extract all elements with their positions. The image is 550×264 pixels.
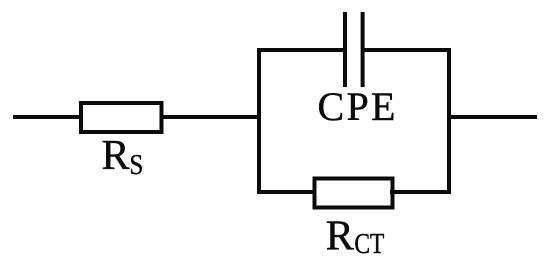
svg-text:CT: CT: [354, 229, 384, 260]
wire: right vertical branch: [447, 48, 451, 194]
capacitor CPE left plate: [343, 12, 347, 87]
wire: CPE to top-right horizontal: [363, 48, 451, 52]
svg-text:R: R: [326, 213, 354, 259]
resistor RS box: [81, 103, 162, 132]
svg-text:CPE: CPE: [318, 84, 398, 129]
wire: top-left horizontal to CPE: [257, 48, 345, 52]
wire: left vertical branch: [257, 48, 261, 194]
wire: RS to parallel junction: [162, 115, 262, 119]
wire: left lead: [13, 115, 83, 119]
svg-text:R: R: [102, 133, 130, 179]
wire: RCT to bottom-right horizontal: [390, 190, 451, 194]
capacitor CPE right plate: [361, 12, 365, 87]
wire: right lead: [449, 115, 537, 119]
resistor RCT box: [315, 179, 393, 208]
svg-text:S: S: [129, 149, 143, 181]
wire: bottom-left horizontal to RCT: [257, 190, 317, 194]
